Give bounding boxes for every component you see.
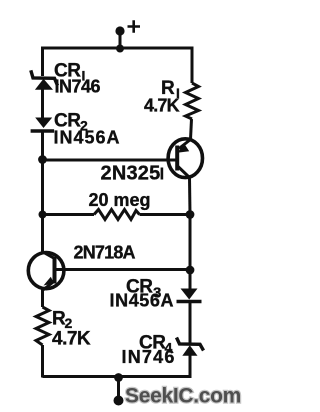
- svg-text:2N325: 2N325: [101, 163, 161, 185]
- wire 20 meg horizontal right segment: [140, 213, 191, 216]
- label 4.7K (R1 value): [144, 96, 180, 116]
- svg-text:IN746: IN746: [55, 77, 101, 97]
- wire top terminal stub: [119, 31, 122, 49]
- resistor 20 meg zigzag: [94, 210, 140, 220]
- wire right rail top corner to R1: [191, 47, 194, 84]
- diode CR2: [31, 118, 54, 132]
- wire CR3 to CR4: [189, 302, 192, 346]
- wire left rail 20meg junction to Q2 collector: [41, 215, 44, 253]
- junction dot bottom terminal: [114, 373, 123, 382]
- wire top rail: [43, 47, 193, 50]
- label R1: [161, 78, 180, 101]
- label R2: [52, 309, 73, 332]
- junction node Q2 base / CR3: [186, 266, 195, 275]
- wire left rail upper (top corner to CR1): [41, 47, 44, 77]
- wire left rail CR1-CR2 segment: [41, 89, 44, 118]
- label 1N456A (CR2 value): [54, 128, 121, 148]
- label 2N3251 (Q1 type): [101, 163, 164, 185]
- transistor Q2 2N718A: [28, 252, 64, 290]
- svg-text:SeekIC.com: SeekIC.com: [125, 385, 241, 408]
- resistor R1 zigzag: [186, 83, 199, 119]
- wire 20 meg horizontal left segment: [43, 213, 95, 216]
- wire bottom terminal stub: [117, 378, 120, 401]
- label 1N746 (CR1 value): [55, 77, 101, 97]
- plus sign: [128, 20, 141, 32]
- wire Q2 emitter to R2: [41, 290, 44, 308]
- svg-text:20 meg: 20 meg: [89, 190, 151, 210]
- svg-text:2N718A: 2N718A: [74, 243, 136, 263]
- terminal dot + supply: [115, 26, 124, 35]
- label CR4: [139, 333, 173, 356]
- wire R1 to Q1 emitter: [191, 119, 192, 140]
- svg-text:IN456A: IN456A: [110, 291, 175, 311]
- label 2N718A (Q2 type): [74, 243, 136, 263]
- junction node 20meg right: [186, 210, 195, 219]
- svg-text:IN746: IN746: [122, 347, 176, 367]
- label CR3: [126, 277, 161, 302]
- label 20 meg: [89, 190, 151, 210]
- diode CR3: [177, 289, 202, 302]
- junction node Q1 base / CR2: [38, 155, 47, 164]
- label CR2: [54, 111, 88, 134]
- svg-text:4.7K: 4.7K: [52, 329, 91, 350]
- wire left rail base junction to 20meg junction: [41, 160, 44, 215]
- label 1N456A (CR3 value): [110, 291, 175, 311]
- wire Q1 base lead: [43, 159, 177, 162]
- zener diode CR1: [31, 70, 58, 89]
- label CR1: [54, 61, 85, 84]
- wire R2 to bottom corner: [41, 345, 44, 378]
- wire left rail CR2 to base junction: [41, 131, 44, 160]
- resistor R2 zigzag: [36, 307, 49, 345]
- watermark SeekIC.com: [125, 385, 241, 408]
- terminal dot - supply: [114, 396, 124, 406]
- junction dot top terminal: [116, 45, 124, 53]
- transistor Q1 2N3251: [168, 139, 202, 178]
- label 4.7K (R2 value): [52, 329, 91, 350]
- wire Q2 base lead: [56, 268, 190, 271]
- junction node 20meg left: [39, 211, 47, 219]
- svg-text:IN456A: IN456A: [54, 128, 121, 148]
- wire 20meg junction to base junction: [189, 215, 192, 271]
- wire base junction to CR3: [189, 270, 192, 290]
- wire Q1 collector to 20meg junction: [188, 178, 192, 215]
- zener diode CR4: [177, 338, 204, 356]
- svg-text:4.7K: 4.7K: [144, 96, 180, 116]
- wire CR4 to bottom corner: [189, 356, 192, 379]
- wire bottom rail: [43, 375, 191, 378]
- label 1N746 (CR4 value): [122, 347, 176, 367]
